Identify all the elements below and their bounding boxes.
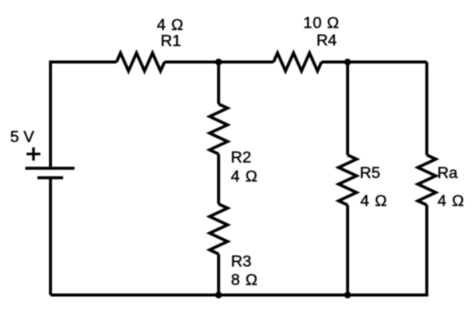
resistor Ra [418,155,436,205]
svg-text:4 Ω: 4 Ω [231,169,258,186]
svg-text:R5: R5 [360,165,381,182]
wire Ra to bottom-right corner [348,205,427,295]
battery V1 top plate [25,167,74,170]
wire R4 to top-right corner [322,61,427,64]
node dot bottom R5 [344,292,351,299]
resistor R1 [117,53,165,71]
wire R2 to R3 [217,154,220,204]
wire bottom rail [51,294,348,297]
wire battery bottom to bottom rail [49,178,52,295]
svg-text:4 Ω: 4 Ω [360,193,387,210]
resistor R2 [210,104,228,154]
svg-text:5 V: 5 V [10,129,34,146]
wire top-left: battery top to R1 [51,62,117,168]
wire R3 to bottom rail [217,254,220,295]
resistor R5 [339,155,357,205]
battery V1 bottom plate [37,176,63,179]
svg-text:10 Ω: 10 Ω [303,15,339,32]
svg-text:8 Ω: 8 Ω [231,272,258,289]
svg-text:4 Ω: 4 Ω [157,17,184,34]
wire right rail down to Ra [425,62,428,155]
node dot top R5 [344,59,351,66]
resistor R3 [210,204,228,254]
svg-text:Ra: Ra [437,165,458,182]
wire middle node down to R2 [217,62,220,104]
node dot bottom middle [215,292,222,299]
resistor R4 [274,53,322,71]
svg-text:R3: R3 [231,253,252,270]
wire node top R5 down to R5 [346,62,349,155]
wire R5 to bottom rail [346,205,349,295]
svg-text:R4: R4 [316,32,337,49]
battery plus sign [27,147,41,160]
svg-text:R1: R1 [161,33,182,50]
node dot top middle [215,59,222,66]
svg-text:R2: R2 [231,150,252,167]
svg-text:4 Ω: 4 Ω [438,193,465,210]
wire R1 to R4 [165,61,274,64]
